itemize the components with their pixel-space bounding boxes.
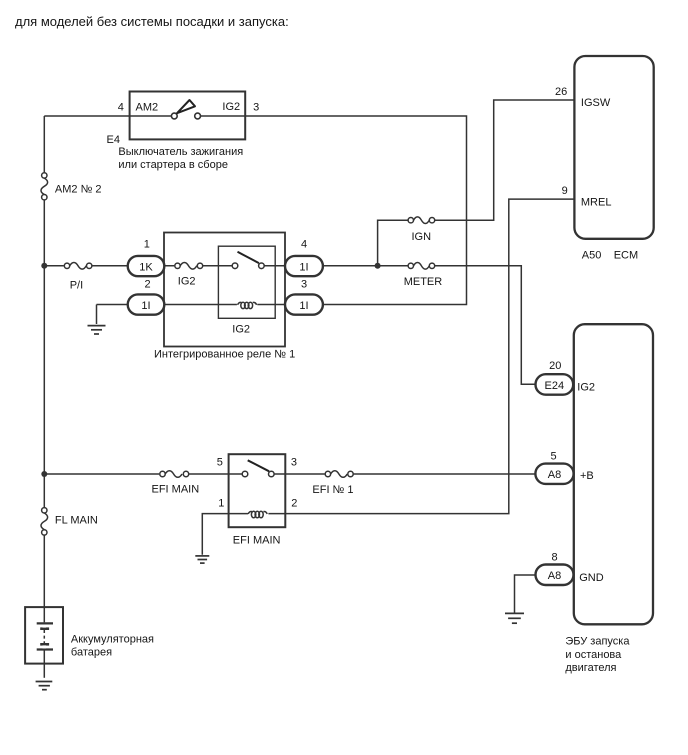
svg-text:3: 3 (301, 279, 307, 291)
svg-text:A8: A8 (548, 570, 561, 582)
svg-text:1: 1 (144, 239, 150, 251)
svg-text:IG2: IG2 (577, 382, 595, 394)
svg-text:GND: GND (579, 572, 604, 584)
svg-text:и останова: и останова (565, 649, 622, 661)
svg-text:1I: 1I (141, 300, 150, 312)
svg-text:A50: A50 (582, 250, 602, 262)
svg-text:P/I: P/I (70, 280, 83, 292)
svg-text:или стартера в сборе: или стартера в сборе (118, 159, 228, 171)
svg-text:MREL: MREL (581, 196, 612, 208)
svg-text:26: 26 (555, 86, 567, 98)
svg-text:EFI MAIN: EFI MAIN (152, 484, 200, 496)
svg-text:4: 4 (301, 239, 307, 251)
svg-text:для моделей без системы посадк: для моделей без системы посадки и запуск… (15, 14, 289, 29)
svg-text:4: 4 (118, 102, 124, 114)
svg-text:+B: +B (580, 470, 594, 482)
svg-text:AM2 № 2: AM2 № 2 (55, 183, 102, 195)
svg-text:2: 2 (144, 279, 150, 291)
svg-text:3: 3 (291, 456, 297, 468)
svg-text:5: 5 (550, 451, 556, 463)
svg-text:AM2: AM2 (136, 102, 159, 114)
svg-text:8: 8 (551, 552, 557, 564)
svg-text:IGN: IGN (412, 231, 432, 243)
svg-text:A8: A8 (548, 469, 561, 481)
svg-text:IG2: IG2 (178, 276, 196, 288)
svg-text:E24: E24 (545, 380, 565, 392)
svg-text:Аккумуляторная: Аккумуляторная (71, 634, 154, 646)
svg-text:EFI MAIN: EFI MAIN (233, 535, 281, 547)
svg-text:IG2: IG2 (232, 323, 250, 335)
svg-text:1I: 1I (299, 300, 308, 312)
svg-text:Выключатель зажигания: Выключатель зажигания (118, 146, 243, 158)
svg-text:IGSW: IGSW (581, 97, 611, 109)
svg-text:двигателя: двигателя (565, 662, 616, 674)
svg-text:ECM: ECM (614, 250, 638, 262)
svg-text:Интегрированное реле № 1: Интегрированное реле № 1 (154, 348, 295, 360)
svg-text:METER: METER (404, 276, 443, 288)
svg-text:1I: 1I (299, 261, 308, 273)
svg-text:1: 1 (218, 498, 224, 510)
svg-text:3: 3 (253, 102, 259, 114)
svg-text:FL MAIN: FL MAIN (55, 515, 98, 527)
svg-text:5: 5 (217, 456, 223, 468)
svg-text:2: 2 (291, 498, 297, 510)
svg-text:EFI № 1: EFI № 1 (312, 484, 353, 496)
svg-text:1K: 1K (139, 261, 153, 273)
svg-text:9: 9 (562, 185, 568, 197)
svg-text:E4: E4 (107, 134, 120, 146)
svg-text:ЭБУ запуска: ЭБУ запуска (565, 636, 630, 648)
svg-text:20: 20 (549, 360, 561, 372)
svg-text:батарея: батарея (71, 647, 112, 659)
svg-text:IG2: IG2 (222, 101, 240, 113)
